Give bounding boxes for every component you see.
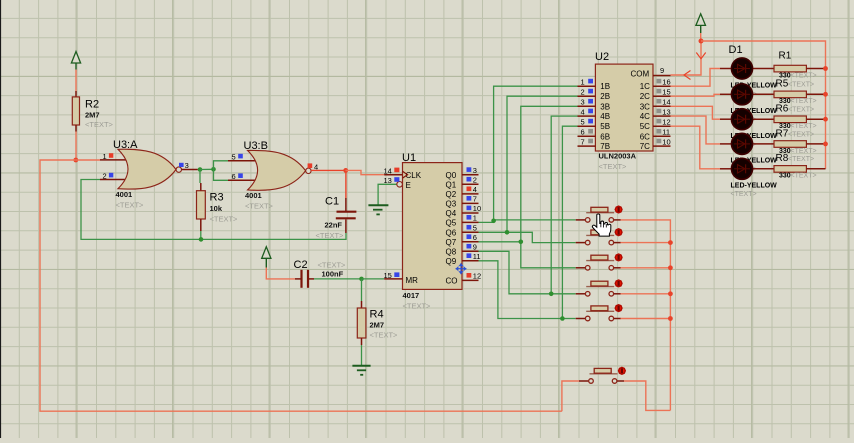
svg-text:R4: R4 (370, 309, 384, 321)
svg-text:11: 11 (662, 128, 670, 137)
svg-text:<TEXT>: <TEXT> (316, 231, 345, 240)
switch SW3 indicator (615, 254, 622, 261)
U2 pin 2 2B (578, 87, 611, 101)
svg-text:5: 5 (473, 224, 477, 233)
svg-text:5: 5 (581, 117, 585, 126)
switch SW3 (576, 255, 621, 270)
U1 pin 2 Q1 (446, 176, 479, 190)
svg-text:3: 3 (473, 166, 477, 175)
LED D2 LED-YELLOW (720, 84, 774, 105)
junction node at R2/pin1/loop (73, 158, 78, 163)
svg-text:6: 6 (581, 128, 585, 137)
wire Q8 to U2.4B and switch row4 (479, 251, 552, 293)
svg-text:U1: U1 (402, 152, 416, 164)
U2 pin 13 4C (640, 107, 671, 121)
switch SW5 (576, 306, 621, 321)
svg-text:5C: 5C (640, 122, 650, 131)
junction top rail (699, 39, 704, 44)
svg-text:1: 1 (473, 214, 477, 223)
switch SW6 (579, 368, 624, 383)
wire SW1 right to rail (621, 220, 671, 411)
U1 pin 9 Q8 (446, 243, 479, 257)
svg-text:C2: C2 (294, 259, 308, 271)
wire node to U1 MR (362, 278, 385, 280)
wire C2 to MR node (314, 278, 362, 280)
mouse hand cursor (592, 214, 610, 236)
svg-text:3: 3 (581, 98, 585, 107)
wire green feedback: pin2 to C1 bottom via bottom run (81, 180, 346, 240)
wire R2 bottom to node (75, 132, 77, 161)
svg-text:14: 14 (384, 167, 392, 176)
U3:B pin 5 (228, 153, 257, 162)
svg-text:7: 7 (473, 195, 477, 204)
resistor R6 330 (774, 104, 826, 131)
U2 pin 11 6C (640, 128, 671, 142)
svg-text:<TEXT>: <TEXT> (731, 191, 757, 198)
U2 pin 4 4B (578, 107, 611, 121)
wire Q6 to U2.2B and switch row2 (479, 96, 578, 232)
wire U2.2C to LED D2 (671, 94, 721, 96)
svg-text:Q4: Q4 (446, 209, 457, 218)
U1 pin 11 Q9 (446, 252, 481, 266)
svg-text:<TEXT>: <TEXT> (791, 72, 817, 79)
junction rail SW3 (668, 265, 673, 270)
U1 pin 15 MR (384, 271, 403, 280)
junction Q6 (505, 230, 510, 235)
svg-text:Q2: Q2 (446, 190, 457, 199)
svg-text:22nF: 22nF (325, 220, 343, 229)
svg-text:ULN2003A: ULN2003A (599, 152, 637, 161)
junction rail SW5 (668, 316, 673, 321)
wire VCC3 down (700, 33, 702, 41)
U2 pin 6 6B (578, 128, 611, 142)
wire node to U1 CLK (stepped) (346, 170, 385, 174)
resistor R7 330 (774, 128, 826, 155)
switch SW2 (576, 230, 621, 245)
svg-text:<TEXT>: <TEXT> (791, 148, 817, 155)
svg-text:2: 2 (473, 176, 477, 185)
arrow chevron down on power drop (696, 53, 705, 59)
ground GND1 (368, 205, 388, 214)
svg-text:9: 9 (660, 66, 664, 75)
power terminal VCC3 (696, 14, 706, 33)
svg-text:CLK: CLK (406, 171, 422, 180)
svg-text:2M7: 2M7 (370, 321, 385, 330)
resistor R1 330 (774, 51, 826, 80)
U2 pin 10 7C (640, 137, 671, 151)
svg-text:4001: 4001 (116, 190, 133, 199)
wire VCC1 to R2 (75, 70, 77, 92)
wire E pin to ground1 (378, 184, 397, 205)
svg-text:<TEXT>: <TEXT> (791, 123, 817, 130)
svg-text:<TEXT>: <TEXT> (245, 202, 274, 211)
svg-text:12: 12 (662, 117, 670, 126)
svg-text:15: 15 (662, 87, 670, 96)
svg-text:4017: 4017 (403, 291, 420, 300)
svg-text:<TEXT>: <TEXT> (788, 156, 814, 163)
LED D1 value labels (731, 82, 778, 98)
LED D5 value labels (731, 183, 778, 199)
junction Q8 (549, 292, 554, 297)
svg-text:7: 7 (581, 137, 585, 146)
wire SW6 right to rail bottom (624, 381, 670, 410)
U2 pin 16 1C (640, 77, 671, 91)
svg-text:10: 10 (662, 137, 670, 146)
svg-text:7B: 7B (600, 142, 610, 151)
power terminal VCC1 (71, 52, 80, 70)
svg-text:1: 1 (581, 77, 585, 86)
svg-text:Q3: Q3 (446, 200, 457, 209)
U3:A output bubble pin 3 (176, 161, 189, 172)
junction R3/bottom green run (199, 237, 204, 242)
wire node down to R3 (199, 170, 201, 184)
svg-text:<TEXT>: <TEXT> (85, 120, 114, 129)
svg-text:CO: CO (446, 277, 458, 286)
svg-text:<TEXT>: <TEXT> (210, 214, 239, 223)
svg-text:4B: 4B (600, 112, 610, 121)
resistor R8 330 (774, 153, 826, 180)
junction Q5 (491, 219, 496, 224)
U1 pin 14 CLK (384, 167, 403, 176)
switch SW1 indicator (615, 206, 622, 213)
node2 to U3:B inputs (211, 167, 216, 172)
svg-text:6C: 6C (640, 132, 650, 141)
U1 pin 3 Q0 (446, 166, 479, 180)
svg-text:5B: 5B (600, 122, 610, 131)
U2 pin 7 7B (578, 137, 611, 151)
svg-text:11: 11 (473, 252, 481, 261)
U2 pin 5 5B (578, 117, 611, 131)
junction rail SW2 (668, 240, 673, 245)
wire SW3 right to rail (621, 267, 671, 269)
IC U1 4017 (402, 152, 462, 310)
resistor R3 (197, 183, 239, 231)
svg-text:Q9: Q9 (446, 257, 457, 266)
svg-text:<TEXT>: <TEXT> (788, 107, 814, 114)
junction rail row4 (823, 142, 828, 147)
U1 pin 6 Q7 (446, 233, 479, 247)
junction rail row2 (823, 92, 828, 97)
svg-text:1: 1 (103, 152, 107, 161)
svg-text:12: 12 (473, 272, 481, 281)
svg-text:COM: COM (631, 69, 650, 78)
U3:B pin 6 (228, 172, 257, 181)
U2 pin 14 3C (640, 98, 671, 112)
wire node to U3:A pin 1 (76, 159, 100, 161)
LED D1 LED-YELLOW (720, 58, 774, 79)
svg-text:Q5: Q5 (446, 219, 457, 228)
svg-text:2: 2 (103, 171, 107, 180)
svg-text:4: 4 (581, 107, 585, 116)
svg-text:<TEXT>: <TEXT> (403, 301, 432, 310)
wire node down to R4 (361, 279, 363, 301)
U1 pin 13 E bubble (384, 176, 403, 187)
wire SW5 right to rail (621, 318, 671, 320)
ground GND2 (352, 366, 370, 375)
svg-text:3B: 3B (600, 102, 610, 111)
svg-text:E: E (406, 181, 411, 190)
svg-text:330: 330 (779, 173, 791, 180)
svg-text:1B: 1B (600, 82, 610, 91)
IC U2 ULN2003A (595, 51, 653, 171)
svg-text:U2: U2 (595, 51, 609, 63)
node gate A output (198, 167, 203, 172)
U2 pin 9 COM (653, 66, 671, 76)
resistor R5 330 (774, 79, 826, 106)
svg-text:1C: 1C (640, 82, 650, 91)
wire VCC2 to C2 (266, 268, 295, 279)
svg-text:R6: R6 (776, 104, 789, 115)
svg-text:<TEXT>: <TEXT> (318, 261, 347, 270)
junction Q7 (519, 240, 524, 245)
capacitor C2 (294, 259, 347, 288)
wire SW6 left to bottom loop (562, 381, 579, 411)
svg-text:<TEXT>: <TEXT> (599, 162, 628, 171)
svg-text:14: 14 (662, 98, 670, 107)
U2 pin 12 5C (640, 117, 671, 131)
wire SW4 right to rail (621, 293, 671, 295)
wire Q7 to U2.3B and switch row3 (479, 106, 578, 242)
svg-text:R8: R8 (776, 153, 789, 164)
svg-text:7C: 7C (640, 142, 650, 151)
switch SW2 indicator (615, 229, 622, 236)
junction rail row3 (823, 117, 828, 122)
wire U2.1C to LED D1 (671, 69, 721, 87)
resistor R4 (357, 301, 398, 345)
LED D2 value labels (731, 108, 778, 124)
svg-text:R5: R5 (776, 79, 789, 90)
svg-text:6: 6 (232, 172, 236, 181)
svg-text:15: 15 (384, 271, 392, 280)
svg-text:4001: 4001 (245, 191, 262, 200)
U1 pin 12 CO (446, 272, 482, 286)
U2 pin 1 1B (578, 77, 611, 91)
svg-text:Q0: Q0 (446, 171, 457, 180)
junction C1 node (343, 168, 348, 173)
LED D3 value labels (731, 133, 778, 149)
LED D5 LED-YELLOW (720, 158, 774, 179)
svg-text:4C: 4C (640, 112, 650, 121)
U1 pin 4 Q2 (446, 185, 479, 199)
U3:A pin 2 (100, 171, 127, 180)
svg-text:U3:A: U3:A (113, 139, 138, 151)
junction MR node (359, 277, 364, 282)
svg-text:4: 4 (473, 185, 477, 194)
U3:A pin 1 (100, 152, 127, 161)
svg-text:<TEXT>: <TEXT> (370, 331, 399, 340)
svg-text:6B: 6B (600, 132, 610, 141)
junction rail row1 (823, 66, 828, 71)
svg-text:C1: C1 (325, 196, 339, 208)
svg-text:<TEXT>: <TEXT> (116, 201, 145, 210)
wire Q5 to U2.1B and switch row1 (479, 86, 578, 222)
wire node down to C1 (345, 170, 347, 198)
svg-text:R7: R7 (776, 128, 789, 139)
U1 pin 10 Q4 (446, 204, 482, 218)
svg-text:R3: R3 (210, 192, 224, 204)
svg-text:LED-YELLOW: LED-YELLOW (731, 183, 778, 190)
svg-text:<TEXT>: <TEXT> (788, 82, 814, 89)
svg-text:<TEXT>: <TEXT> (788, 131, 814, 138)
svg-text:100nF: 100nF (322, 270, 344, 279)
svg-text:Q7: Q7 (446, 238, 457, 247)
wire R3 bottom to green run (200, 231, 202, 239)
svg-text:<TEXT>: <TEXT> (791, 98, 817, 105)
wire U2.4C to LED D4 (671, 116, 721, 144)
wire SW2 right to rail (621, 242, 671, 244)
svg-text:10k: 10k (210, 204, 223, 213)
U1 pin 5 Q6 (446, 224, 479, 238)
svg-text:10: 10 (473, 204, 481, 213)
wire node to node2 (200, 168, 214, 170)
svg-text:16: 16 (662, 77, 670, 86)
power terminal VCC2 (262, 247, 271, 268)
capacitor C1 (316, 196, 357, 240)
wire U3:B out to C1 node (311, 169, 345, 171)
svg-text:5: 5 (232, 153, 236, 162)
switch SW4 (576, 281, 621, 296)
nor gate U3:A (113, 139, 176, 210)
svg-text:2B: 2B (600, 92, 610, 101)
U3:B output bubble pin 4 (306, 163, 318, 174)
U1 pin 1 Q5 (446, 214, 479, 228)
switch SW6 indicator (619, 367, 626, 374)
wire left feedback loop (node to bottom rail) (40, 160, 562, 411)
svg-text:3C: 3C (640, 102, 650, 111)
wire R4 to ground (361, 345, 363, 366)
U2 pin 15 2C (640, 87, 671, 101)
wire U2.5C to LED D5 (671, 126, 721, 169)
svg-text:Q1: Q1 (446, 181, 457, 190)
svg-text:2C: 2C (640, 92, 650, 101)
U1 pin 7 Q3 (446, 195, 479, 209)
LED D4 LED-YELLOW (720, 133, 774, 154)
svg-text:13: 13 (384, 176, 392, 185)
svg-text:R2: R2 (85, 99, 99, 111)
LED D4 value labels (731, 158, 778, 174)
svg-text:2M7: 2M7 (85, 111, 100, 120)
wire COM to power rail (671, 41, 702, 75)
svg-text:9: 9 (473, 243, 477, 252)
wire U3:A out to node (182, 169, 198, 171)
switch SW5 indicator (615, 305, 622, 312)
svg-text:Q8: Q8 (446, 248, 457, 257)
svg-text:<TEXT>: <TEXT> (791, 173, 817, 180)
nor gate U3:B (244, 140, 306, 211)
svg-text:U3:B: U3:B (244, 140, 268, 152)
svg-text:6: 6 (473, 233, 477, 242)
switch SW4 indicator (615, 280, 622, 287)
move cursor near CO pin (456, 263, 467, 274)
U2 pin 3 3B (578, 98, 611, 112)
svg-text:D1: D1 (729, 44, 743, 56)
svg-text:MR: MR (406, 276, 419, 285)
svg-text:Q6: Q6 (446, 229, 457, 238)
junction rail SW4 (668, 291, 673, 296)
svg-text:R1: R1 (779, 51, 792, 62)
wire Q9 to U2.5B and switch row5 (479, 261, 563, 319)
resistor R2 (72, 91, 113, 132)
switch SW1 (576, 207, 621, 222)
svg-text:13: 13 (662, 107, 670, 116)
junction Q9 (560, 316, 565, 321)
wire U2.3C to LED D3 (671, 106, 721, 119)
arrow chevron left on COM wire (684, 71, 691, 80)
LED D3 LED-YELLOW (720, 109, 774, 130)
svg-text:2: 2 (581, 87, 585, 96)
wire top rail to right column (701, 41, 826, 169)
